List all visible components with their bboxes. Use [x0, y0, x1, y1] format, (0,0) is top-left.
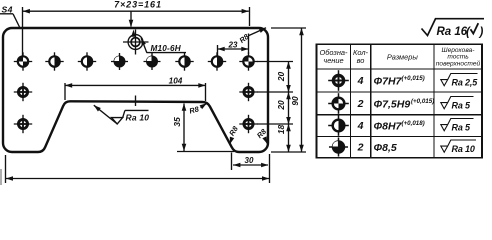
svg-text:Ra 10: Ra 10	[126, 113, 150, 123]
svg-text:(+0,018): (+0,018)	[402, 120, 425, 127]
hole H11 (d7H7 right col)	[239, 83, 257, 101]
hole H2 (d8H7)	[45, 52, 63, 70]
hole H3 (d8H7)	[78, 52, 96, 70]
svg-text:Ra 10: Ra 10	[452, 144, 475, 154]
dimension 35	[183, 104, 185, 152]
table row 1 symbol (d7H7)	[328, 70, 349, 91]
svg-text:35: 35	[172, 117, 182, 127]
table frame	[317, 44, 483, 158]
leader M10-6H	[141, 38, 147, 53]
svg-text:4: 4	[357, 120, 364, 132]
svg-text:Ra 16: Ra 16	[437, 26, 468, 38]
arrow to top edge at M10	[130, 11, 132, 26]
svg-text:Ra 2,5: Ra 2,5	[452, 77, 479, 87]
svg-text:поверхностей: поверхностей	[436, 60, 481, 68]
extension line left	[22, 7, 24, 56]
svg-text:чение: чение	[323, 56, 343, 65]
svg-text:4: 4	[357, 75, 364, 87]
hole H4 (d8.5)	[111, 53, 128, 70]
svg-text:30: 30	[245, 156, 254, 165]
svg-text:тость: тость	[447, 54, 469, 61]
svg-text:Φ8,5: Φ8,5	[374, 142, 397, 154]
hole H9 (d7H7 left col)	[14, 83, 32, 101]
svg-text:во: во	[357, 56, 365, 65]
label R8 cutout corner	[188, 104, 200, 115]
svg-text:2: 2	[357, 98, 364, 110]
centerline tick through cutout edge	[135, 96, 137, 107]
svg-text:18: 18	[276, 125, 286, 135]
dimension 23	[218, 48, 249, 50]
label R8 slant fillet	[227, 124, 240, 138]
svg-text:104: 104	[169, 77, 183, 86]
plate outline	[3, 28, 268, 152]
svg-text:): )	[478, 26, 484, 38]
svg-text:S4: S4	[2, 4, 13, 14]
table row 3 symbol (d8H7)	[328, 115, 349, 136]
hole H12 (d7H7 right col)	[239, 115, 257, 133]
svg-text:Размеры: Размеры	[387, 53, 419, 62]
label R8 bottom right corner	[255, 126, 269, 140]
svg-text:20: 20	[276, 72, 286, 83]
hole H8 (d7.5)	[239, 52, 257, 70]
svg-text:20: 20	[276, 100, 286, 111]
svg-text:23: 23	[228, 40, 238, 49]
svg-text:Ra 5: Ra 5	[452, 100, 472, 110]
bottom overall dimension line	[5, 155, 7, 183]
hole H7 (d8H7)	[208, 52, 226, 70]
table row 4 symbol (d8.5)	[329, 137, 348, 156]
svg-text:(: (	[466, 26, 471, 38]
svg-text:Φ8H7: Φ8H7	[374, 120, 403, 132]
table row 2 symbol (d7.5H9)	[328, 93, 349, 114]
svg-text:(+0,015): (+0,015)	[402, 75, 425, 82]
svg-text:(+0,015): (+0,015)	[411, 98, 434, 105]
hole H1 (d7.5)	[14, 52, 32, 70]
svg-text:Ra 5: Ra 5	[452, 122, 472, 132]
dimension 90	[301, 28, 303, 152]
svg-text:M10-6H: M10-6H	[151, 44, 182, 53]
dimension 7x23=161 line	[23, 10, 249, 12]
svg-text:2: 2	[357, 142, 364, 154]
extension line right	[249, 7, 251, 26]
dimension chain 20/20/18	[288, 62, 290, 153]
roughness Ra 10 symbol	[112, 118, 123, 124]
svg-text:7×23=161: 7×23=161	[114, 0, 162, 9]
right side extension lines	[257, 61, 293, 63]
svg-text:Φ7,5H9: Φ7,5H9	[374, 98, 411, 110]
scan edge artifact	[0, 169, 2, 185]
extension line bottom of 35	[177, 151, 234, 153]
hole H5 (d8.5)	[144, 53, 161, 70]
svg-text:90: 90	[290, 96, 300, 106]
threaded hole M10-6H	[123, 30, 149, 55]
hole H6 (d8H7)	[175, 52, 193, 70]
general roughness mark Ra 16	[422, 19, 485, 36]
label R8 top right corner	[238, 31, 252, 44]
svg-text:R8: R8	[188, 104, 200, 115]
dimension 30	[231, 153, 233, 171]
svg-text:Φ7H7: Φ7H7	[374, 75, 403, 87]
svg-text:R8: R8	[227, 124, 240, 138]
roughness Ra 10 leader	[94, 105, 118, 124]
hole H10 (d7H7 left col)	[14, 115, 32, 133]
